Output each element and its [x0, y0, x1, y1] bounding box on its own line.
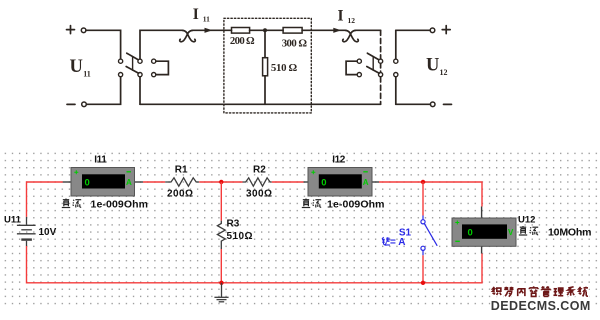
svg-text:= A: = A: [390, 237, 405, 248]
svg-text:10MOhm: 10MOhm: [548, 226, 592, 238]
wire: [199, 181, 242, 183]
node junction S1 bottom: [421, 281, 425, 285]
label 键 = A: [382, 237, 390, 245]
battery U11: [17, 217, 36, 246]
svg-text:A: A: [363, 178, 369, 187]
switch blades (right): [367, 53, 378, 60]
svg-text:V: V: [508, 228, 514, 237]
svg-text:12: 12: [440, 68, 448, 77]
node junction S1 top: [421, 180, 425, 184]
shorting stub (left switch): [152, 59, 156, 63]
wire between resistors: [250, 29, 284, 31]
svg-text:I12: I12: [332, 155, 345, 166]
dashed link (movable connection): [380, 30, 382, 59]
resistor 200Ω (box style): [232, 28, 250, 34]
svg-text:R3: R3: [227, 218, 240, 229]
node junction R1/R2/R3: [219, 180, 223, 184]
wire bottom-left: [86, 77, 120, 104]
svg-text:0: 0: [321, 177, 326, 188]
terminal + (source side): [81, 28, 86, 33]
svg-text:R2: R2: [253, 165, 266, 176]
terminal − (source side): [82, 102, 87, 107]
wire + arrow I11: [192, 29, 232, 31]
svg-text:10V: 10V: [39, 227, 57, 238]
wire top-left: [86, 30, 121, 59]
node ground junction: [219, 281, 223, 285]
svg-text:11: 11: [83, 69, 91, 78]
arrow I12: [333, 28, 341, 33]
watermark 织梦内容管理系统: [493, 286, 588, 296]
svg-text:200 Ω: 200 Ω: [230, 35, 255, 47]
svg-text:R1: R1: [175, 165, 188, 176]
svg-text:0: 0: [85, 177, 90, 188]
svg-text:U: U: [426, 56, 439, 76]
switch left contacts: [119, 59, 123, 63]
bottom rail: [140, 103, 381, 105]
voltmeter U12: [452, 207, 516, 254]
wire R3 branch bottom: [220, 249, 222, 283]
label 直流 (I11): [62, 199, 81, 208]
ammeter I11: [63, 168, 143, 197]
switch S1: [421, 216, 437, 256]
node junction (top of 510): [263, 28, 267, 32]
svg-text:I: I: [338, 8, 344, 25]
two-port network dotted box: [224, 18, 311, 113]
svg-text:U: U: [70, 57, 83, 77]
ground: [214, 283, 228, 302]
label U11: [70, 57, 91, 78]
label U12: [426, 56, 448, 77]
current hook I11: [183, 30, 196, 41]
svg-text:U11: U11: [4, 214, 22, 225]
terminal − (load side): [430, 102, 435, 107]
wire top rail right with corner to voltmeter: [379, 182, 482, 207]
resistor R3: [217, 221, 225, 249]
svg-text:300 Ω: 300 Ω: [282, 38, 308, 50]
label I12 (serif): [338, 8, 356, 25]
svg-text:510 Ω: 510 Ω: [271, 62, 298, 74]
switch blades (left): [127, 53, 138, 60]
resistor 300Ω (box style): [283, 28, 302, 34]
wire left vertical from battery top to top rail: [27, 182, 63, 217]
svg-text:12: 12: [348, 16, 356, 25]
label 直流 (U12): [519, 226, 538, 235]
shorting stub (right switch): [357, 59, 361, 63]
wire middle vertical + top rail to hook: [140, 30, 183, 59]
svg-text:A: A: [126, 178, 132, 187]
resistor R1: [165, 178, 199, 186]
label I11 (serif): [193, 6, 210, 23]
wire S1 branch bottom: [422, 255, 424, 282]
svg-text:200Ω: 200Ω: [167, 189, 193, 200]
resistor R2: [243, 178, 272, 186]
label 直流 (I12): [302, 199, 321, 208]
switch contacts on dashed link: [379, 59, 383, 63]
wire hook to dashed link: [355, 29, 381, 31]
svg-text:U12: U12: [518, 214, 535, 225]
svg-text:I: I: [193, 6, 199, 23]
svg-text:1e-009Ohm: 1e-009Ohm: [327, 198, 385, 210]
current hook I12: [346, 30, 359, 41]
wire: [272, 181, 304, 183]
wire out of box to I12: [302, 29, 346, 31]
svg-text:0: 0: [468, 228, 473, 239]
svg-text:300Ω: 300Ω: [246, 189, 272, 200]
svg-text:DEDECMS.COM: DEDECMS.COM: [491, 299, 592, 313]
terminal + (load side): [430, 28, 435, 33]
wire: [143, 181, 165, 183]
wire R3 branch top: [220, 182, 222, 221]
ammeter I12: [304, 168, 380, 197]
svg-text:510Ω: 510Ω: [227, 231, 253, 242]
right vertical wire + top corner to + terminal: [395, 30, 397, 104]
svg-text:1e-009Ohm: 1e-009Ohm: [91, 198, 149, 210]
wire bottom rail: [27, 246, 483, 283]
svg-text:11: 11: [203, 14, 210, 23]
wire 510 branch: [264, 30, 266, 104]
svg-text:I11: I11: [94, 155, 107, 166]
wire S1 branch top: [422, 182, 424, 216]
resistor 510Ω (box style, vertical): [263, 58, 268, 76]
switch contacts right outer: [394, 59, 398, 63]
